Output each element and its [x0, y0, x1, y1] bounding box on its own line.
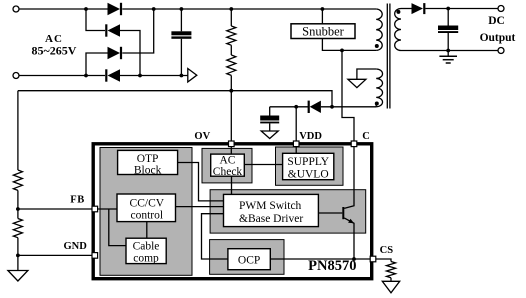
wire OV sense net horizontal [18, 91, 332, 107]
block AC check gray region [202, 148, 252, 183]
wire aux top to ground [357, 69, 376, 79]
svg-text:PN8570: PN8570 [308, 258, 356, 274]
wire GND to pin [18, 254, 92, 256]
wire top bus D1 to primary [122, 8, 376, 10]
node OV sense junction [229, 89, 233, 93]
wire AC line top [19, 8, 108, 10]
svg-text:85~265V: 85~265V [32, 44, 77, 58]
wire CCCV to PWM [176, 206, 224, 208]
svg-text:CS: CS [380, 245, 394, 256]
box OCP [228, 249, 270, 270]
pin VDD [293, 141, 299, 147]
svg-text:OTP: OTP [137, 153, 159, 165]
wire left sense chain vertical [17, 91, 19, 170]
box SUPPLY UVLO [283, 153, 334, 179]
node junction top AC to D2 [84, 7, 88, 11]
svg-text:control: control [131, 210, 164, 222]
DC output terminal bottom [498, 48, 504, 54]
wire OV pin to AC check [230, 146, 232, 154]
svg-text:Block: Block [134, 165, 162, 177]
node snubber junction on bus [321, 7, 325, 11]
node OV net to VDD diode anode [330, 105, 334, 109]
svg-text:&UVLO: &UVLO [288, 169, 329, 181]
svg-text:VDD: VDD [299, 131, 322, 142]
wire FB pin to CCCV [96, 208, 117, 210]
diode D2 bridge [106, 24, 120, 36]
pin GND [92, 253, 98, 259]
transistor Q1 [342, 146, 354, 259]
ground arrow primary return [188, 69, 197, 83]
wire bus to snubber [321, 9, 323, 24]
label AC 85~265V [32, 33, 77, 58]
capacitor C1 bulk [171, 9, 191, 76]
wire output minus rail [401, 50, 498, 52]
wire D2 anode to minus bus [120, 31, 140, 76]
box Cable comp [126, 238, 166, 263]
node emitter CS junction [352, 257, 356, 261]
svg-text:Check: Check [213, 166, 243, 178]
resistor R1 OV divider upper [227, 9, 236, 55]
wire VDD pin to supply [295, 145, 297, 154]
svg-text:Output: Output [480, 32, 516, 44]
node D4 anode junction [138, 74, 142, 78]
diode D6 output [412, 3, 425, 14]
wire D3 cathode riser to plus bus [122, 9, 153, 53]
diode D1 bridge [108, 3, 122, 15]
AC input terminal top [13, 6, 19, 12]
AC input terminal bottom [13, 73, 19, 79]
wire FB to pin [18, 208, 92, 210]
node GND junction [16, 254, 20, 258]
resistor R4 FB divider lower [13, 219, 22, 271]
wire CCCV to cable comp [146, 222, 148, 239]
wire PWM to transistor base [318, 212, 342, 214]
wire VDD node to pin [295, 107, 297, 141]
node secondary polarity dot [396, 10, 400, 14]
block PWM gray region [210, 190, 366, 233]
wire AC1 to D2 cathode [86, 9, 105, 31]
box OTP Block [118, 150, 178, 174]
wire snubber to primary bottom [322, 39, 376, 51]
transformer T1 primary winding [376, 9, 382, 50]
svg-text:comp: comp [133, 253, 159, 265]
node OV divider top junction [229, 7, 233, 11]
wire AC2 to D3 anode [86, 53, 108, 76]
pin C [351, 141, 357, 147]
svg-text:&Base Driver: &Base Driver [239, 213, 303, 225]
node VDD junction [294, 105, 298, 109]
ground triangle left [8, 271, 28, 282]
pin CS [370, 256, 376, 262]
transformer core [387, 4, 390, 109]
wire OCP to PWM [202, 214, 228, 259]
diode D5 VDD [309, 101, 321, 113]
node riser junction [152, 7, 156, 11]
svg-text:Snubber: Snubber [302, 25, 345, 39]
ground triangle CS [382, 281, 399, 293]
wire AC line bottom [19, 75, 105, 77]
node primary polarity dot [375, 44, 379, 48]
svg-text:OV: OV [194, 131, 210, 142]
node cap top junction [180, 7, 184, 11]
wire output plus rail [425, 8, 498, 10]
box CC/CV control [117, 194, 176, 222]
svg-text:GND: GND [64, 241, 88, 252]
ground triangle VDD cap [261, 131, 278, 139]
pin FB [92, 206, 98, 212]
ground triangle aux [348, 79, 366, 87]
node junction bottom AC to D3 [84, 74, 88, 78]
resistor R3 FB divider upper [13, 170, 22, 219]
wire diode cathode to VDD node [270, 106, 309, 108]
node collector junction [340, 49, 344, 53]
svg-text:OCP: OCP [238, 255, 260, 267]
svg-text:C: C [362, 131, 370, 142]
svg-text:FB: FB [70, 194, 85, 205]
node output cap bottom [446, 49, 450, 53]
wire collector to C pin [342, 50, 354, 141]
wire OTP to PWM [178, 163, 224, 201]
svg-text:CC/CV: CC/CV [130, 198, 165, 210]
wire CS pin to resistor [376, 259, 391, 262]
wire OCP to CS node [270, 258, 370, 260]
ground earth secondary [439, 51, 457, 64]
svg-text:Cable: Cable [133, 241, 160, 253]
resistor R5 CS [387, 262, 396, 282]
wire secondary top to diode [401, 8, 412, 10]
diode D4 bridge [106, 69, 120, 81]
block left gray region [100, 148, 192, 276]
node output cap top [446, 7, 450, 11]
label DC Output [480, 15, 516, 44]
capacitor C3 output [438, 9, 458, 51]
node FB junction [16, 207, 20, 211]
wire AC check to supply [244, 164, 282, 166]
transformer aux winding [376, 69, 382, 107]
pin OV [229, 141, 235, 147]
diode D3 bridge [108, 47, 122, 59]
wire AC check to PWM [231, 176, 233, 194]
svg-text:SUPPLY: SUPPLY [287, 156, 329, 168]
wire FB branch to cable comp [109, 209, 126, 246]
transformer secondary winding [395, 9, 401, 51]
node aux polarity dot [375, 102, 379, 106]
svg-text:AC: AC [220, 155, 236, 167]
node cap bottom junction [180, 74, 184, 78]
wire aux bottom to VDD diode [321, 106, 376, 108]
box AC Check [211, 154, 245, 176]
block OCP gray region [210, 240, 284, 275]
block supply gray region [276, 147, 344, 185]
box PWM Switch Base Driver [224, 194, 319, 226]
svg-text:PWM Switch: PWM Switch [239, 200, 302, 212]
capacitor C2 VDD [260, 107, 279, 131]
svg-text:DC: DC [488, 15, 505, 27]
wire minus bus to ground arrow [120, 75, 188, 77]
snubber box [291, 24, 355, 39]
DC output terminal top [498, 6, 504, 12]
resistor R2 OV divider lower [227, 55, 236, 142]
IC U1 PN8570 body [93, 144, 372, 279]
